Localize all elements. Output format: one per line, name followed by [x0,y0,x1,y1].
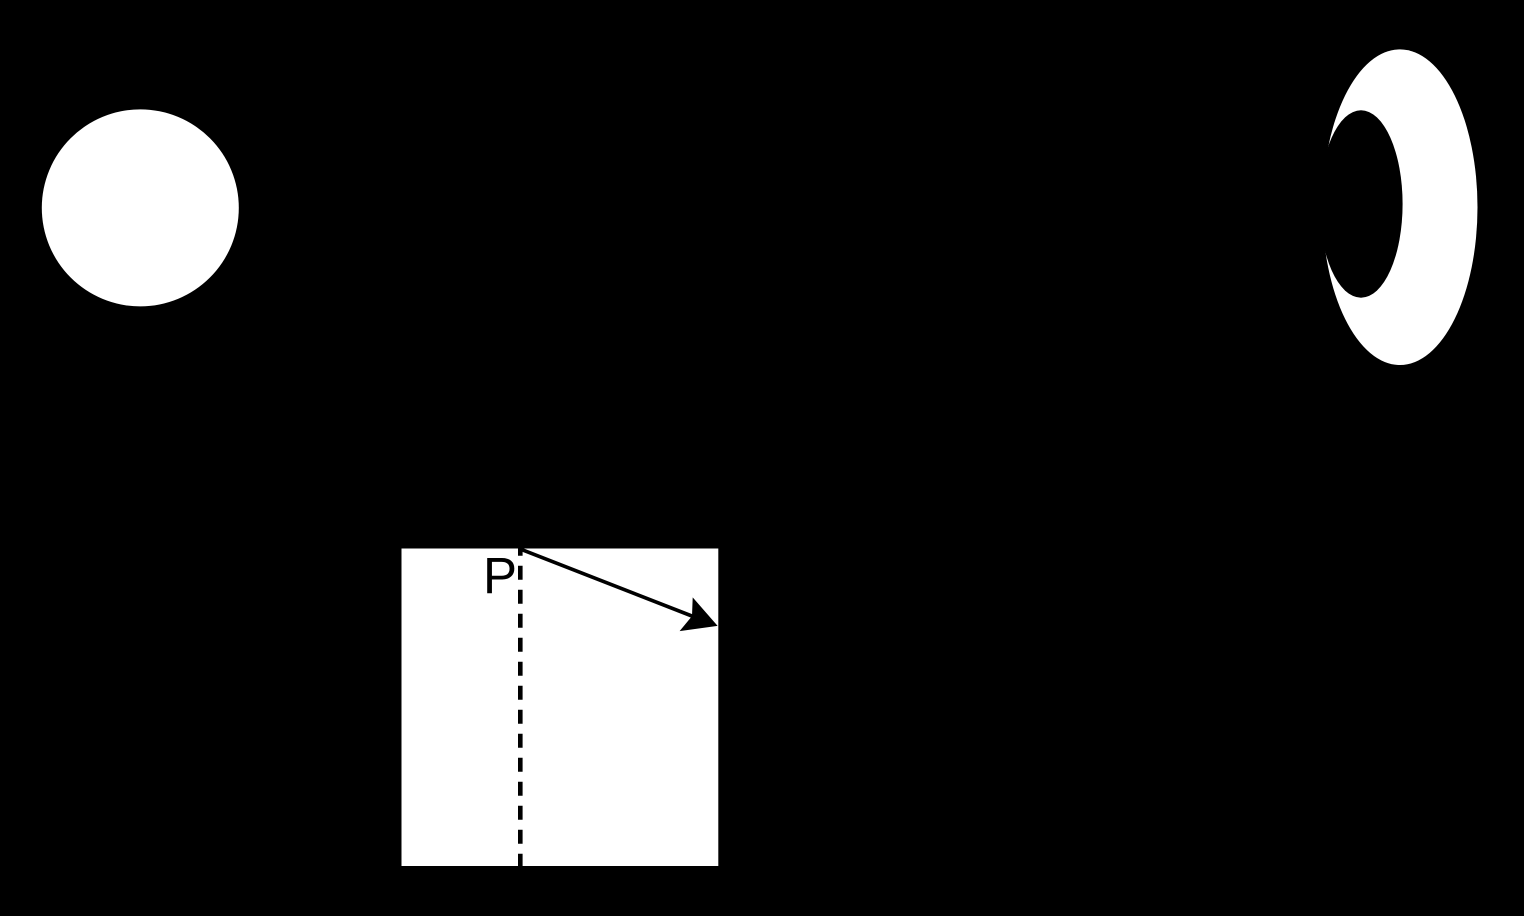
svg-text:P: P [483,547,517,604]
moon shadow inner ellipse [1319,110,1402,297]
dashed normal line [518,549,523,867]
light ray shaft [521,549,697,618]
glass block [402,549,719,867]
light ray arrowhead [680,597,718,631]
moon outer ellipse [1322,49,1477,365]
sun (light source circle) [42,109,239,306]
